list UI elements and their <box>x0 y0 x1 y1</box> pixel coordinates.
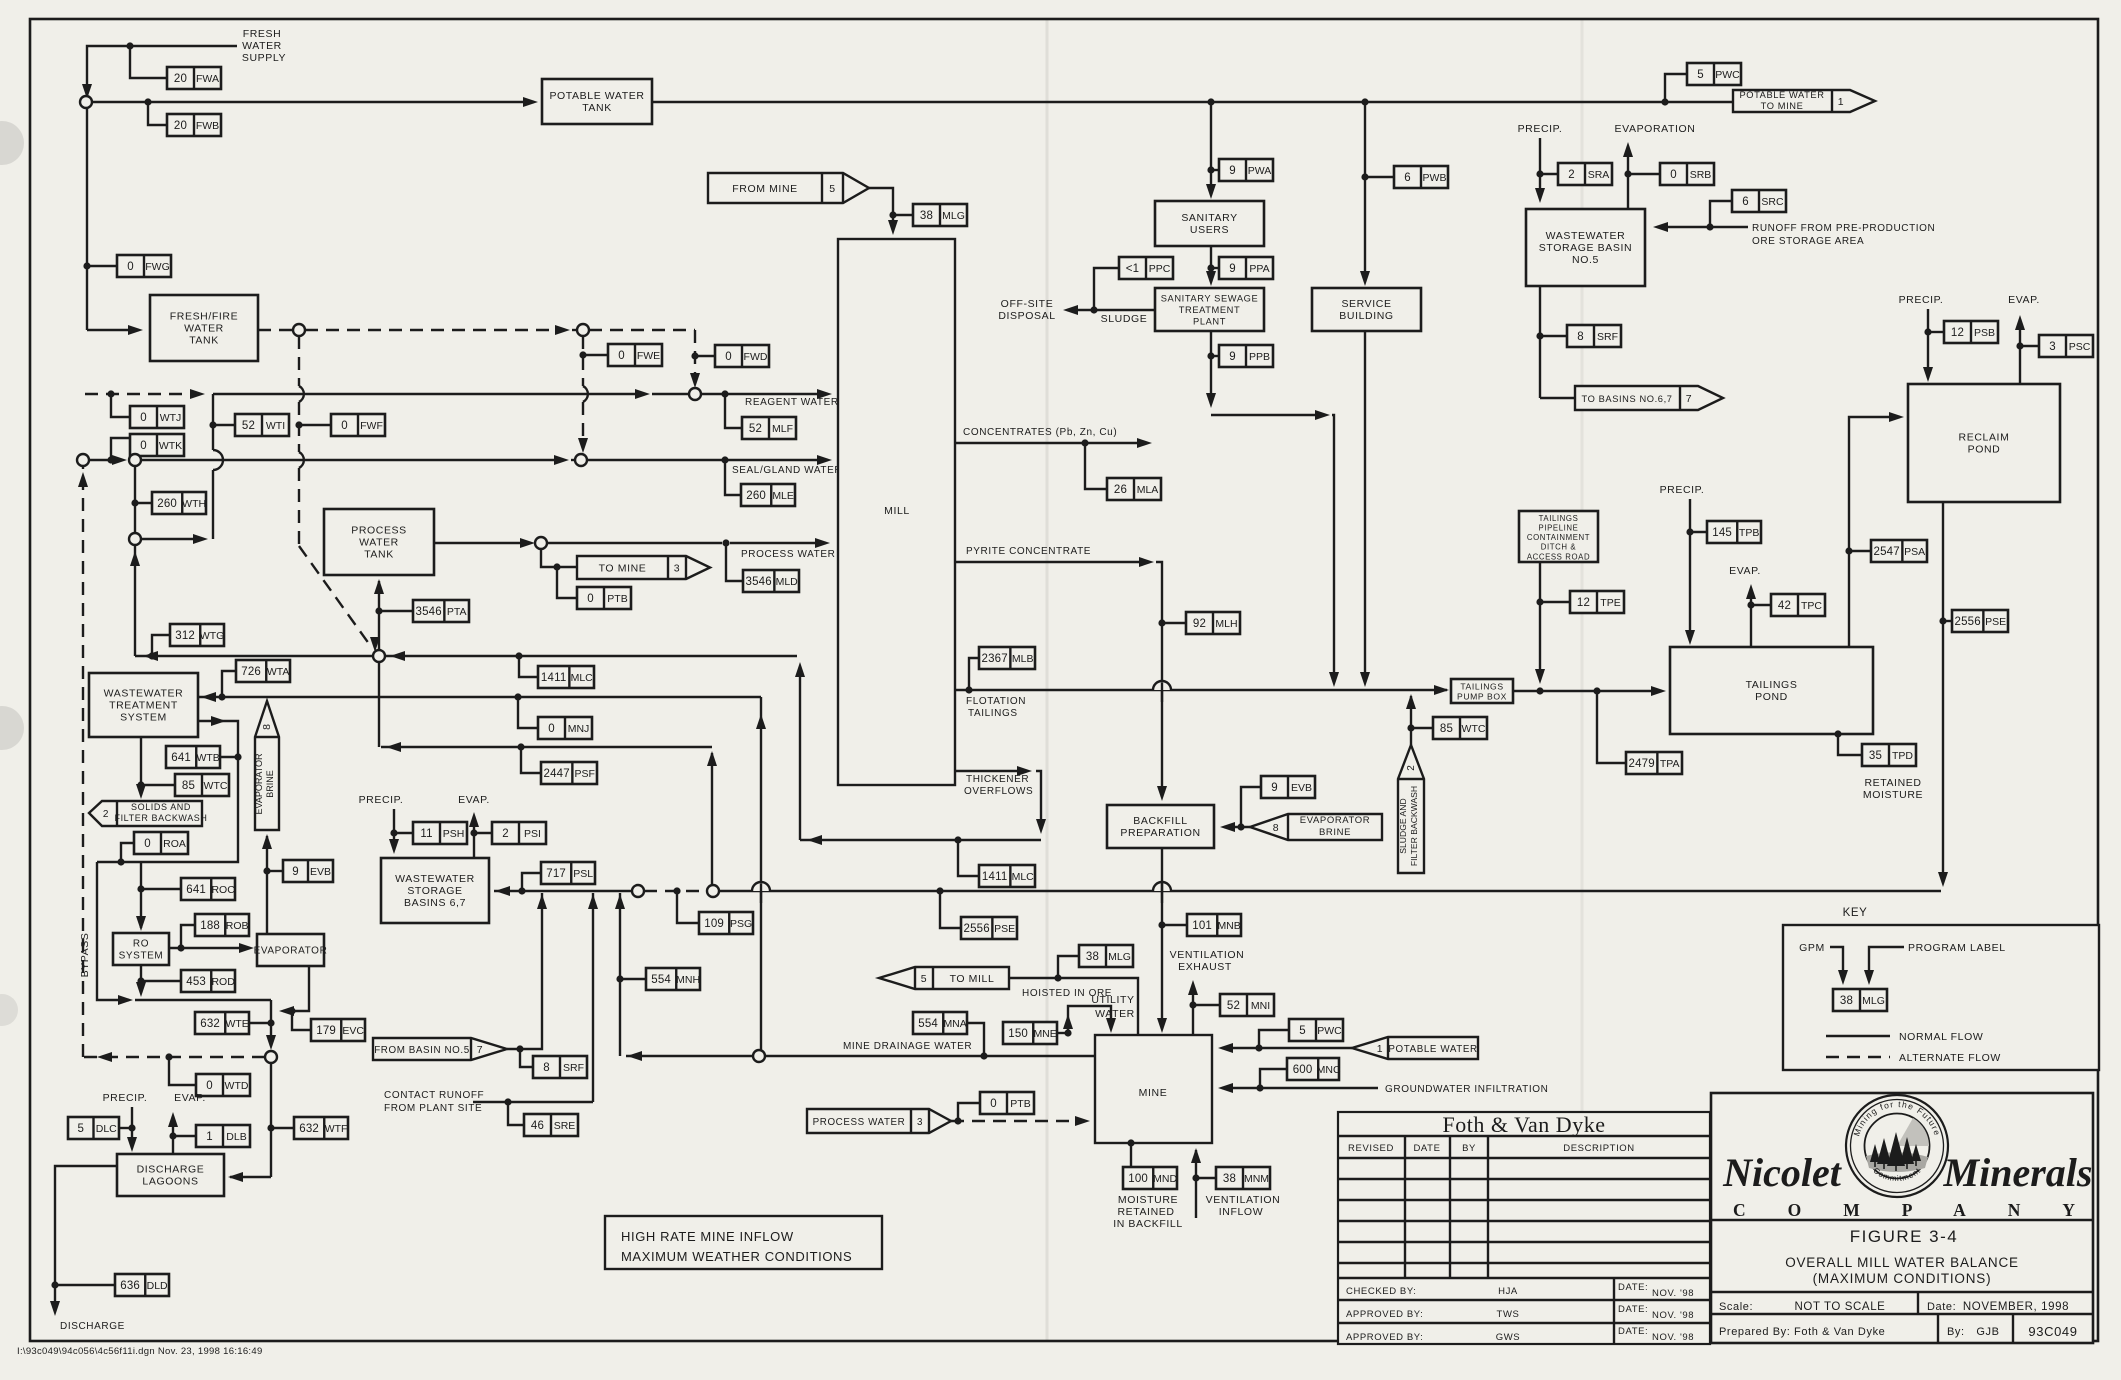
svg-text:STORAGE: STORAGE <box>407 885 462 897</box>
flow box PTA <box>413 600 469 622</box>
wire tap PPC <box>1094 268 1119 310</box>
svg-text:92: 92 <box>1193 618 1206 630</box>
svg-text:HJA: HJA <box>1498 1286 1518 1297</box>
revision table title Foth and Van Dyke <box>1443 1112 1606 1137</box>
svg-text:ROB: ROB <box>226 920 249 932</box>
wire thickener overflow line <box>955 766 1046 834</box>
label GROUNDWATER INFILTRATION <box>1385 1084 1548 1095</box>
flow box FWF <box>331 414 385 436</box>
wire tap PSH <box>394 832 413 834</box>
svg-text:MNB: MNB <box>1217 920 1240 932</box>
svg-text:600: 600 <box>1293 1064 1313 1076</box>
wire RO to evaporator <box>169 943 254 953</box>
flow box FWB <box>167 114 221 136</box>
svg-text:BYPASS: BYPASS <box>79 933 91 978</box>
flow box FWG <box>117 255 171 277</box>
svg-text:150: 150 <box>1008 1028 1028 1040</box>
svg-text:OVERALL MILL WATER BALANCE: OVERALL MILL WATER BALANCE <box>1785 1255 2019 1270</box>
svg-text:0: 0 <box>548 723 555 735</box>
label RUNOFF FROM PRE-PRODUCTION <box>1752 223 1935 247</box>
wire tap FWB <box>144 98 167 125</box>
wire dashed to node B <box>305 325 578 335</box>
svg-text:8: 8 <box>1273 822 1279 834</box>
svg-text:MOISTURE: MOISTURE <box>1118 1194 1178 1206</box>
svg-text:0: 0 <box>140 412 147 424</box>
svg-text:MLG: MLG <box>1108 951 1131 963</box>
ref flag FROM MINE 5 <box>708 173 869 203</box>
svg-text:TO MILL: TO MILL <box>950 973 995 985</box>
svg-text:MLG: MLG <box>942 210 965 222</box>
wire drainage riser <box>615 893 625 1056</box>
wire tailings precip <box>1685 499 1695 645</box>
wire tap PSF <box>521 747 541 773</box>
svg-text:WTE: WTE <box>225 1018 248 1030</box>
svg-text:FROM MINE: FROM MINE <box>732 183 797 195</box>
svg-text:0: 0 <box>206 1080 213 1092</box>
wire tap PTB mine <box>958 1103 980 1121</box>
wire basin5 outlet <box>1536 286 1575 398</box>
svg-text:VENTILATION: VENTILATION <box>1170 949 1245 961</box>
svg-text:PSA: PSA <box>1904 546 1925 558</box>
node bypass seal junction <box>77 454 89 466</box>
node process supply branch <box>535 537 547 549</box>
wire WTS solids drop <box>136 737 146 799</box>
label EVAP tailings <box>1729 565 1761 577</box>
svg-text:SYSTEM: SYSTEM <box>119 951 164 962</box>
wire dashed bypass vertical <box>78 466 88 1057</box>
svg-text:MOISTURE: MOISTURE <box>1863 789 1923 801</box>
svg-text:TREATMENT: TREATMENT <box>1179 305 1241 315</box>
svg-text:WASTEWATER: WASTEWATER <box>1546 230 1626 242</box>
wire tap WTB <box>217 756 238 758</box>
svg-text:SRB: SRB <box>1690 169 1712 181</box>
ref flag TO BASINS NO67 7 <box>1575 386 1723 410</box>
wire evaporator bottom line <box>279 966 309 1016</box>
process box DISCHARGE LAGOONS <box>117 1154 224 1196</box>
flow box WTA <box>236 660 290 682</box>
svg-text:PSH: PSH <box>443 828 465 840</box>
svg-text:PSF: PSF <box>574 768 594 780</box>
svg-text:SYSTEM: SYSTEM <box>120 712 167 724</box>
wire tap MNM <box>1196 1177 1216 1179</box>
wire tap DLD <box>55 1284 115 1286</box>
svg-text:2556: 2556 <box>963 923 989 935</box>
wire tap WTA <box>222 671 236 697</box>
label EVAP lagoon <box>174 1092 206 1104</box>
svg-text:DATE:: DATE: <box>1618 1282 1648 1293</box>
flow box SRF basin5 <box>1567 325 1621 347</box>
flow box WTI <box>235 414 289 436</box>
wire tap WTH <box>135 502 152 504</box>
svg-text:TPD: TPD <box>1892 750 1913 762</box>
flow box MLC mill <box>979 865 1035 887</box>
svg-text:WTH: WTH <box>182 498 206 510</box>
svg-text:312: 312 <box>175 630 195 642</box>
flow box SRE <box>524 1114 578 1136</box>
flow box MLE <box>741 484 795 506</box>
title block divider 3 <box>1711 1313 2093 1315</box>
label OFF-SITE DISPOSAL <box>998 298 1055 322</box>
ref flag TO MILL 5 <box>879 967 1009 989</box>
svg-text:TO MINE: TO MINE <box>1761 101 1804 111</box>
svg-text:ORE STORAGE AREA: ORE STORAGE AREA <box>1752 236 1864 247</box>
key wire PROGRAM LABEL <box>1864 947 1904 985</box>
svg-text:0: 0 <box>618 350 625 362</box>
wire PSF line <box>381 742 712 752</box>
svg-text:I:\93c049\94c056\4c56f11i.dgn: I:\93c049\94c056\4c56f11i.dgn Nov. 23, 1… <box>17 1346 263 1357</box>
wire tap PSC <box>2020 345 2039 347</box>
flow box WTH <box>152 492 206 514</box>
svg-text:MINE DRAINAGE WATER: MINE DRAINAGE WATER <box>843 1041 972 1052</box>
svg-text:SEAL/GLAND WATER: SEAL/GLAND WATER <box>732 465 842 476</box>
svg-text:TPB: TPB <box>1739 527 1759 539</box>
process box PROCESS WATER TANK <box>324 509 434 575</box>
wire tap EVB backfill <box>1241 787 1261 827</box>
flow box WTC backwash <box>1433 717 1487 739</box>
wire tap PSI <box>474 832 492 834</box>
svg-text:Scale:: Scale: <box>1719 1301 1753 1313</box>
flow box PSB <box>1944 321 1998 343</box>
wire tap PPB <box>1211 355 1219 357</box>
node seal line mid <box>129 454 141 466</box>
node return line B <box>707 885 719 897</box>
flow box WTC <box>175 774 229 796</box>
svg-text:WATER: WATER <box>1095 1008 1135 1020</box>
svg-text:2367: 2367 <box>981 653 1007 665</box>
svg-text:2556: 2556 <box>1954 616 1980 628</box>
svg-text:11: 11 <box>420 828 432 840</box>
wire tap TPA <box>1597 691 1626 763</box>
svg-text:FRESH: FRESH <box>243 28 282 40</box>
svg-text:8: 8 <box>1577 331 1584 343</box>
svg-text:52: 52 <box>749 423 762 435</box>
svg-text:MNJ: MNJ <box>568 723 590 735</box>
wire tap SRA <box>1540 173 1558 175</box>
svg-text:EVAP.: EVAP. <box>458 794 490 806</box>
title block divider 2 <box>1711 1291 2093 1293</box>
svg-text:PROCESS: PROCESS <box>351 525 407 537</box>
svg-text:PSL: PSL <box>573 868 593 880</box>
wire tap MLG hoisted <box>1058 956 1079 978</box>
svg-text:MND: MND <box>1153 1173 1177 1185</box>
wire tap MLD <box>726 543 743 581</box>
svg-text:MAXIMUM WEATHER CONDITIONS: MAXIMUM WEATHER CONDITIONS <box>621 1249 852 1264</box>
svg-text:GROUNDWATER INFILTRATION: GROUNDWATER INFILTRATION <box>1385 1084 1548 1095</box>
svg-text:Date:: Date: <box>1927 1301 1956 1313</box>
wire tap PWC top <box>1665 74 1687 102</box>
title block company name <box>1722 1150 2117 1220</box>
svg-text:FWD: FWD <box>744 351 768 363</box>
svg-text:7: 7 <box>1686 393 1692 405</box>
svg-text:Prepared By: Foth & Van Dyke: Prepared By: Foth & Van Dyke <box>1719 1326 1885 1338</box>
svg-text:EVAPORATION: EVAPORATION <box>1615 123 1696 135</box>
wire lagoon precip <box>127 1107 137 1152</box>
svg-text:TANK: TANK <box>582 102 612 114</box>
svg-text:FWG: FWG <box>145 261 170 273</box>
flow box MNI <box>1220 994 1274 1016</box>
svg-text:FLOTATION: FLOTATION <box>966 696 1026 707</box>
wire tap PSE <box>1943 620 1952 622</box>
svg-text:5: 5 <box>921 973 927 985</box>
flow box TPC <box>1771 594 1825 616</box>
svg-text:VENTILATION: VENTILATION <box>1206 1194 1281 1206</box>
title block prepared row <box>1719 1314 2078 1343</box>
wire WTH riser <box>131 466 138 533</box>
wire tap EVB <box>267 870 283 872</box>
label EVAP reclaim <box>2008 294 2040 306</box>
svg-text:5: 5 <box>1299 1025 1306 1037</box>
svg-text:SRE: SRE <box>554 1120 576 1132</box>
svg-text:38: 38 <box>920 210 933 222</box>
svg-text:2547: 2547 <box>1873 546 1899 558</box>
svg-text:453: 453 <box>186 976 206 988</box>
flow box ROC <box>181 878 235 900</box>
key box <box>1783 925 2099 1070</box>
wire tap WTD <box>169 1057 196 1085</box>
svg-text:1: 1 <box>206 1131 213 1143</box>
wire process water supply line <box>434 538 830 548</box>
svg-text:52: 52 <box>1227 1000 1240 1012</box>
svg-text:PSE: PSE <box>994 923 1015 935</box>
svg-text:TAILINGS: TAILINGS <box>1746 679 1798 691</box>
process box SANITARY USERS <box>1155 201 1264 246</box>
wire tap DLB <box>173 1135 196 1137</box>
svg-text:0: 0 <box>127 261 134 273</box>
svg-text:EVAP.: EVAP. <box>174 1092 206 1104</box>
label THICKENER OVERFLOWS <box>964 774 1033 797</box>
process box BACKFILL PREPARATION <box>1107 805 1214 848</box>
svg-text:MLD: MLD <box>776 576 799 588</box>
svg-text:RUNOFF FROM PRE-PRODUCTION: RUNOFF FROM PRE-PRODUCTION <box>1752 223 1935 234</box>
wire tap SRF basin <box>520 1049 533 1067</box>
svg-text:9: 9 <box>1229 165 1236 177</box>
svg-text:101: 101 <box>1192 920 1212 932</box>
wire tap PSB <box>1928 331 1944 333</box>
svg-text:APPROVED BY:: APPROVED BY: <box>1346 1332 1423 1343</box>
flow box MLA <box>1107 478 1161 500</box>
wire tap TPB <box>1690 531 1707 533</box>
svg-text:MLA: MLA <box>1137 484 1159 496</box>
svg-text:NOV. '98: NOV. '98 <box>1652 1310 1694 1321</box>
svg-text:3546: 3546 <box>415 606 441 618</box>
svg-text:MNC: MNC <box>1317 1064 1341 1076</box>
svg-text:IN BACKFILL: IN BACKFILL <box>1113 1218 1183 1230</box>
flow box ROD <box>181 970 235 992</box>
wire riser to reagent line <box>213 394 223 539</box>
svg-text:TAILINGS: TAILINGS <box>968 708 1018 719</box>
flow box PSI <box>492 822 546 844</box>
svg-text:0: 0 <box>725 351 732 363</box>
svg-text:TO MINE: TO MINE <box>599 563 647 575</box>
svg-text:12: 12 <box>1577 597 1590 609</box>
svg-text:PREPARATION: PREPARATION <box>1120 827 1200 839</box>
wire tap MNJ <box>518 697 538 728</box>
svg-text:DLD: DLD <box>147 1280 168 1292</box>
wire discharge outfall <box>50 1166 117 1316</box>
svg-text:1: 1 <box>1838 96 1844 108</box>
title block figure title <box>1785 1255 2019 1286</box>
svg-text:CONTAINMENT: CONTAINMENT <box>1527 533 1590 542</box>
svg-text:FROM PLANT SITE: FROM PLANT SITE <box>384 1103 482 1114</box>
label DISCHARGE <box>60 1321 125 1332</box>
svg-text:PLANT: PLANT <box>1193 317 1226 327</box>
title block figure number <box>1850 1227 1959 1246</box>
svg-text:PSG: PSG <box>730 918 752 930</box>
wire dashed fresh/fire discharge <box>258 329 294 331</box>
title block frame <box>1711 1093 2093 1343</box>
svg-text:WTC: WTC <box>1462 723 1486 735</box>
ref flag EVAPORATOR BRINE 8 vertical <box>254 701 279 830</box>
svg-text:7: 7 <box>477 1044 483 1056</box>
node main junction <box>373 650 385 662</box>
wire reclaim precip <box>1923 309 1933 382</box>
wire tap MLG mill <box>893 214 913 216</box>
process box TAILINGS PUMP BOX <box>1451 679 1513 703</box>
flow box TPA <box>1626 752 1682 774</box>
svg-text:MLG: MLG <box>1862 995 1885 1007</box>
flow box EVC <box>311 1019 365 1041</box>
wire tap MLC line <box>519 656 538 677</box>
flow box PSE return <box>961 917 1017 939</box>
wire discharge drop <box>228 1063 275 1182</box>
flow box MND <box>1123 1167 1177 1189</box>
svg-text:6: 6 <box>1742 196 1749 208</box>
wire basins precip <box>389 809 399 854</box>
note box HIGH RATE MINE INFLOW <box>605 1216 882 1269</box>
svg-text:PWB: PWB <box>1423 172 1447 184</box>
svg-text:0: 0 <box>587 593 594 605</box>
wire tap TPD <box>1834 730 1862 755</box>
label PROCESS WATER <box>741 549 835 560</box>
node return line A <box>632 885 644 897</box>
svg-text:WASTEWATER: WASTEWATER <box>104 688 184 700</box>
svg-text:NOV. '98: NOV. '98 <box>1652 1332 1694 1343</box>
svg-text:EVAP.: EVAP. <box>1729 565 1761 577</box>
svg-text:FILTER BACKWASH: FILTER BACKWASH <box>114 813 207 823</box>
svg-text:APPROVED BY:: APPROVED BY: <box>1346 1309 1423 1320</box>
label CONTACT RUNOFF <box>384 1090 484 1114</box>
svg-text:MLB: MLB <box>1012 653 1034 665</box>
wire tap WTJ <box>111 394 130 417</box>
flow box MNJ <box>538 717 592 739</box>
wire dashed FWE drop <box>578 336 588 453</box>
svg-text:MNE: MNE <box>1033 1028 1056 1040</box>
svg-text:CONTACT RUNOFF: CONTACT RUNOFF <box>384 1090 484 1101</box>
svg-text:POTABLE WATER: POTABLE WATER <box>1388 1044 1477 1055</box>
svg-text:PSC: PSC <box>2069 341 2091 353</box>
svg-text:RO: RO <box>133 939 149 950</box>
wire mill water return line <box>135 651 797 661</box>
svg-text:ACCESS ROAD: ACCESS ROAD <box>1527 552 1590 561</box>
ref flag SOLIDS AND FILTER BACKWASH 2 <box>89 801 208 826</box>
svg-text:POND: POND <box>1968 444 2001 456</box>
wire tap ROB <box>181 925 195 948</box>
svg-text:WTB: WTB <box>196 752 219 764</box>
svg-text:MLH: MLH <box>1215 618 1237 630</box>
flow box PSF <box>541 762 597 784</box>
svg-text:PRECIP.: PRECIP. <box>103 1092 148 1104</box>
svg-text:WTG: WTG <box>200 630 225 642</box>
svg-text:85: 85 <box>1440 723 1453 735</box>
svg-text:CHECKED BY:: CHECKED BY: <box>1346 1286 1416 1297</box>
svg-text:GWS: GWS <box>1496 1332 1521 1343</box>
wire tap MLA <box>1085 443 1107 489</box>
label PRECIP basins <box>359 794 404 806</box>
svg-text:WATER: WATER <box>242 40 282 52</box>
svg-text:PPA: PPA <box>1249 263 1269 275</box>
label ALTERNATE FLOW <box>1899 1052 2001 1064</box>
wire backfill to mine <box>1157 848 1167 1033</box>
svg-text:TREATMENT: TREATMENT <box>109 700 178 712</box>
label GPM <box>1799 942 1825 954</box>
label KEY <box>1843 907 1868 919</box>
svg-text:35: 35 <box>1869 750 1882 762</box>
wire tap EVC <box>292 1011 311 1030</box>
svg-text:PWA: PWA <box>1248 165 1272 177</box>
svg-text:SRC: SRC <box>1761 196 1784 208</box>
svg-text:Foth & Van Dyke: Foth & Van Dyke <box>1443 1112 1606 1137</box>
wire tap MLH <box>1158 619 1186 626</box>
flow box PTB mine <box>980 1092 1034 1114</box>
svg-text:EVAPORATOR: EVAPORATOR <box>1300 815 1370 826</box>
svg-text:2: 2 <box>1406 765 1417 771</box>
svg-text:38: 38 <box>1223 1173 1236 1185</box>
flow box SRB <box>1660 163 1714 185</box>
svg-text:2: 2 <box>502 828 509 840</box>
svg-text:0: 0 <box>341 420 348 432</box>
flow box MLC <box>538 666 594 688</box>
process box WASTEWATER STORAGE BASINS 6 7 <box>381 858 489 923</box>
wire service building drain <box>1360 331 1370 687</box>
label MINE DRAINAGE WATER <box>843 1041 972 1052</box>
wire runoff line <box>1653 222 1748 232</box>
flow box PSA <box>1871 540 1927 562</box>
svg-text:FRESH/FIRE: FRESH/FIRE <box>170 311 238 323</box>
svg-text:THICKENER: THICKENER <box>966 774 1029 785</box>
svg-text:9: 9 <box>292 866 299 878</box>
process box WASTEWATER TREATMENT SYSTEM <box>89 673 198 737</box>
label RETAINED MOISTURE <box>1863 777 1923 801</box>
svg-text:641: 641 <box>186 884 206 896</box>
svg-text:EXHAUST: EXHAUST <box>1178 961 1232 973</box>
label PRECIP lagoon <box>103 1092 148 1104</box>
wire tap WTG <box>152 635 170 656</box>
label HOISTED IN ORE <box>1022 988 1112 999</box>
wire tailings evap <box>1746 584 1756 647</box>
title block logo <box>1846 1095 1948 1197</box>
flow box PSG <box>699 912 753 934</box>
svg-text:FWE: FWE <box>637 350 660 362</box>
svg-text:PUMP BOX: PUMP BOX <box>1457 692 1507 702</box>
svg-text:USERS: USERS <box>1190 224 1229 236</box>
label PROGRAM LABEL <box>1908 942 2006 954</box>
svg-text:FIGURE 3-4: FIGURE 3-4 <box>1850 1227 1959 1246</box>
svg-text:DESCRIPTION: DESCRIPTION <box>1563 1143 1635 1154</box>
svg-text:NOVEMBER, 1998: NOVEMBER, 1998 <box>1963 1301 2069 1313</box>
wire junction riser up <box>130 545 140 656</box>
flow box PPA <box>1219 257 1273 279</box>
flow box SRA <box>1558 163 1612 185</box>
label FRESH WATER SUPPLY <box>242 28 286 64</box>
svg-text:WTK: WTK <box>159 440 182 452</box>
svg-text:OFF-SITE: OFF-SITE <box>1001 298 1054 310</box>
wire dashed diagonal to junction <box>299 546 380 652</box>
svg-text:FROM BASIN NO.5: FROM BASIN NO.5 <box>374 1045 470 1056</box>
svg-text:EVAPORATOR: EVAPORATOR <box>254 946 328 957</box>
svg-text:WTA: WTA <box>267 666 290 678</box>
wire tap WTE <box>249 1022 271 1024</box>
wire sanitary users to plant <box>1206 246 1216 286</box>
